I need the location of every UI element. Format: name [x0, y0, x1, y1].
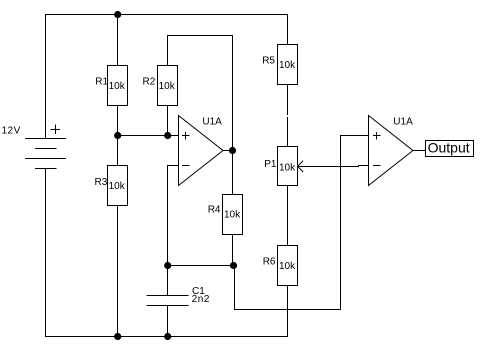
svg-text:10k: 10k — [159, 81, 176, 92]
svg-text:2n2: 2n2 — [192, 294, 211, 305]
svg-text:R2: R2 — [143, 77, 156, 88]
svg-text:R4: R4 — [208, 205, 221, 216]
svg-text:10k: 10k — [109, 81, 126, 92]
svg-text:R6: R6 — [263, 257, 276, 268]
svg-text:R3: R3 — [95, 177, 108, 188]
svg-text:10k: 10k — [109, 181, 126, 192]
svg-text:12V: 12V — [2, 126, 21, 137]
svg-text:10k: 10k — [279, 261, 296, 272]
svg-text:U1A: U1A — [393, 116, 413, 127]
svg-text:P1: P1 — [264, 159, 277, 170]
svg-text:Output: Output — [428, 140, 470, 156]
svg-text:10k: 10k — [279, 162, 296, 173]
svg-text:10k: 10k — [279, 60, 296, 71]
svg-text:10k: 10k — [224, 210, 241, 221]
svg-text:R5: R5 — [262, 56, 275, 67]
svg-text:R1: R1 — [95, 77, 108, 88]
svg-text:U1A: U1A — [202, 116, 222, 127]
